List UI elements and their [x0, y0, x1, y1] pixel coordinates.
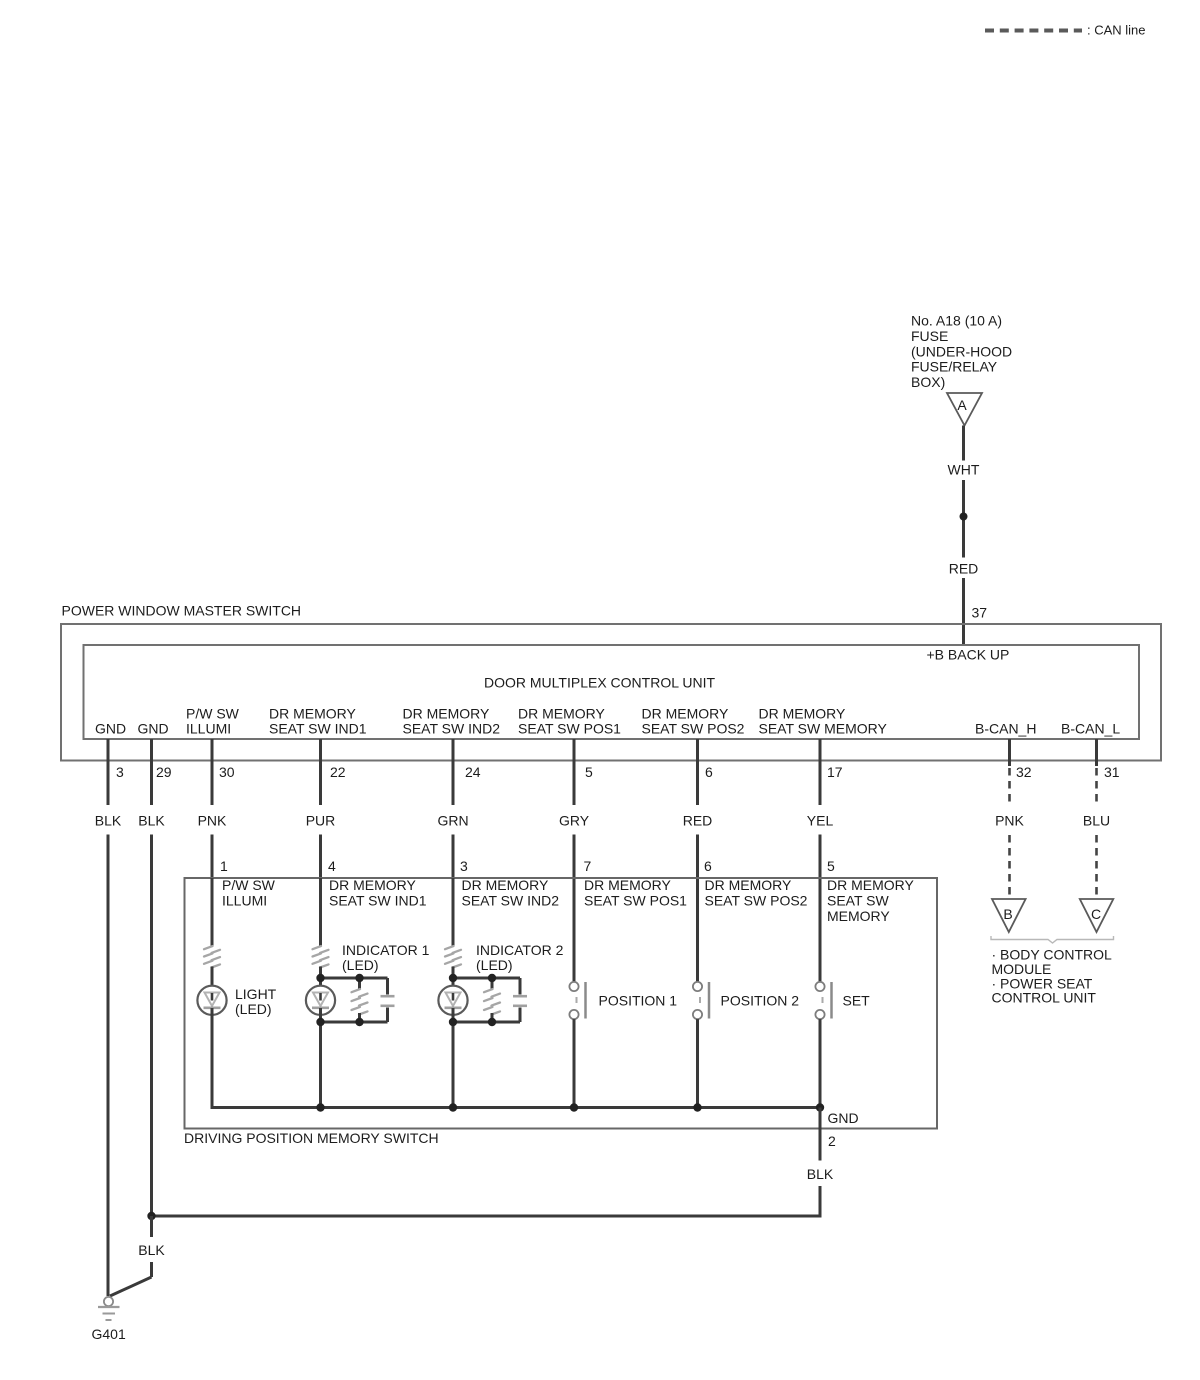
svg-text:B-CAN_L: B-CAN_L [1061, 721, 1120, 737]
indicator 1 capacitor [381, 978, 395, 1022]
svg-text:SET: SET [843, 993, 871, 1009]
svg-text:SEAT SW IND1: SEAT SW IND1 [329, 893, 427, 909]
svg-text:INDICATOR 1: INDICATOR 1 [342, 942, 430, 958]
svg-text:(LED): (LED) [342, 957, 379, 973]
svg-text:G401: G401 [92, 1326, 126, 1342]
DPMS pin label DR MEMORY SEAT SW POS1 [584, 877, 687, 909]
indicator 2 branch resistor [484, 978, 500, 1022]
svg-text:(LED): (LED) [235, 1001, 272, 1017]
svg-text:YEL: YEL [807, 813, 834, 829]
pin label DR MEMORY SEAT SW IND2 [403, 706, 501, 737]
svg-text:DR MEMORY: DR MEMORY [827, 877, 915, 893]
indicator 2 capacitor [513, 978, 527, 1022]
svg-text:PNK: PNK [995, 813, 1024, 829]
connector A [947, 393, 982, 426]
svg-text:SEAT SW IND1: SEAT SW IND1 [269, 721, 367, 737]
ground G401 [92, 1297, 126, 1342]
pin label DR MEMORY SEAT SW POS2 [642, 706, 745, 737]
svg-text:4: 4 [328, 858, 336, 874]
svg-text:PNK: PNK [198, 813, 227, 829]
LED LIGHT [197, 986, 226, 1015]
indicator 1 parallel rails [321, 978, 388, 1022]
svg-text:RED: RED [683, 813, 713, 829]
svg-text:FUSE/RELAY: FUSE/RELAY [911, 359, 998, 375]
box DRIVING POSITION MEMORY SWITCH [184, 878, 937, 1146]
svg-text:BOX): BOX) [911, 374, 945, 390]
wire PNK CAN pin32 [995, 739, 1024, 899]
indicator 2 parallel rails [453, 978, 520, 1022]
svg-text:INDICATOR 2: INDICATOR 2 [476, 942, 564, 958]
connector B [992, 899, 1026, 932]
svg-text:SEAT SW IND2: SEAT SW IND2 [462, 893, 560, 909]
ground rail junctions [316, 1103, 824, 1111]
svg-text:SEAT SW IND2: SEAT SW IND2 [403, 721, 501, 737]
svg-text:37: 37 [972, 605, 988, 621]
connector C [1080, 899, 1114, 932]
wire YEL pin17 [807, 739, 834, 982]
pin label B-CAN_L [1061, 721, 1120, 737]
legend: CAN line [985, 23, 1146, 38]
pin label P/W SW ILLUMI [186, 706, 240, 737]
svg-text:DR MEMORY: DR MEMORY [329, 877, 417, 893]
svg-text:22: 22 [330, 764, 346, 780]
resistor on IND1 wire [313, 946, 329, 967]
svg-text:WHT: WHT [948, 462, 980, 478]
svg-text:BLU: BLU [1083, 813, 1110, 829]
wire GRN inside DPMS [452, 878, 455, 946]
pin number 17 [827, 764, 843, 780]
switch POSITION 1 [569, 982, 677, 1108]
label INDICATOR 1 (LED) [342, 942, 430, 973]
wire GRY pin5 [559, 739, 590, 982]
svg-text:POSITION 2: POSITION 2 [721, 993, 800, 1009]
svg-text:2: 2 [828, 1133, 836, 1149]
svg-text:DR MEMORY: DR MEMORY [584, 877, 672, 893]
svg-text:30: 30 [219, 764, 235, 780]
DPMS pin number 3 [460, 858, 468, 874]
pin label DR MEMORY SEAT SW POS1 [518, 706, 621, 737]
pin 37 [972, 605, 988, 621]
wire BLK pin29 [138, 739, 165, 1216]
svg-text:17: 17 [827, 764, 843, 780]
svg-text:DR MEMORY: DR MEMORY [518, 706, 606, 722]
DPMS pin number 1 [220, 858, 228, 874]
svg-text:5: 5 [585, 764, 593, 780]
svg-text:DR MEMORY: DR MEMORY [403, 706, 491, 722]
wire RED pin6 [683, 739, 713, 982]
resistor on P/W SW wire [204, 946, 220, 967]
svg-text:C: C [1091, 906, 1101, 922]
svg-text:7: 7 [584, 858, 592, 874]
junction on fuse wire [960, 513, 968, 521]
pin label +B BACK UP [927, 647, 1010, 663]
svg-text:P/W SW: P/W SW [222, 877, 276, 893]
wire resistor to IND1 LED [319, 967, 322, 994]
svg-text:DR MEMORY: DR MEMORY [462, 877, 550, 893]
svg-text:(LED): (LED) [476, 957, 513, 973]
svg-text:P/W SW: P/W SW [186, 706, 240, 722]
indicator 1 junctions [316, 974, 363, 1026]
svg-text:GND: GND [138, 721, 169, 737]
svg-text:BLK: BLK [807, 1166, 834, 1182]
svg-text:RED: RED [949, 561, 979, 577]
svg-text:ILLUMI: ILLUMI [186, 721, 231, 737]
svg-text:SEAT SW POS1: SEAT SW POS1 [518, 721, 621, 737]
wire PUR inside DPMS [319, 878, 322, 946]
DPMS pin label DR MEMORY SEAT SW POS2 [705, 877, 808, 909]
pin label GND (3) [95, 721, 126, 737]
wire PNK pin30 [198, 739, 227, 946]
svg-text:3: 3 [460, 858, 468, 874]
svg-text:GRY: GRY [559, 813, 590, 829]
wire to LIGHT LED [211, 967, 214, 994]
svg-text:BLK: BLK [138, 813, 165, 829]
wire BLK to ground [110, 1216, 165, 1296]
svg-text:DR MEMORY: DR MEMORY [269, 706, 357, 722]
svg-text:+B BACK UP: +B BACK UP [927, 647, 1010, 663]
indicator 1 branch resistor [352, 978, 368, 1022]
ground rail in DPMS [211, 1008, 821, 1108]
fuse No. A18 label [911, 313, 1012, 391]
svg-text:GND: GND [828, 1110, 859, 1126]
resistor on IND2 wire [445, 946, 461, 967]
svg-text:POSITION 1: POSITION 1 [599, 993, 678, 1009]
svg-text:SEAT SW POS2: SEAT SW POS2 [705, 893, 808, 909]
svg-text:No. A18 (10 A): No. A18 (10 A) [911, 313, 1002, 329]
svg-text:3: 3 [116, 764, 124, 780]
svg-text:29: 29 [156, 764, 172, 780]
wire LIGHT LED to rail [211, 1008, 214, 1108]
svg-text:A: A [957, 397, 967, 413]
DPMS pin label DR MEMORY SEAT SW IND2 [462, 877, 560, 909]
wire RED to box [949, 480, 979, 645]
pin number 30 [219, 764, 235, 780]
svg-text:24: 24 [465, 764, 481, 780]
switch POSITION 2 [693, 982, 799, 1108]
DPMS pin label P/W SW ILLUMI [222, 877, 276, 909]
svg-text:(UNDER-HOOD: (UNDER-HOOD [911, 343, 1012, 359]
svg-text:5: 5 [827, 858, 835, 874]
svg-text:DR MEMORY: DR MEMORY [759, 706, 847, 722]
pin label DR MEMORY SEAT SW MEMORY [759, 706, 888, 737]
svg-text:1: 1 [220, 858, 228, 874]
pin label B-CAN_H [975, 721, 1036, 737]
LED indicator 2 [438, 986, 467, 1108]
pin number 22 [330, 764, 346, 780]
svg-text:DR MEMORY: DR MEMORY [642, 706, 730, 722]
LED indicator 1 [306, 986, 335, 1108]
wire BLK from DPMS GND [807, 1108, 834, 1217]
wire BLU CAN pin31 [1083, 739, 1110, 899]
svg-text:DRIVING POSITION MEMORY SWITCH: DRIVING POSITION MEMORY SWITCH [184, 1130, 439, 1146]
svg-text:: CAN line: : CAN line [1087, 23, 1146, 38]
indicator 2 junctions [449, 974, 496, 1026]
wire resistor to IND2 LED [452, 967, 455, 994]
pin number 29 [156, 764, 172, 780]
svg-text:SEAT SW POS2: SEAT SW POS2 [642, 721, 745, 737]
svg-text:CONTROL UNIT: CONTROL UNIT [992, 990, 1097, 1006]
wire BLK pin3 [95, 739, 122, 1296]
svg-text:SEAT SW: SEAT SW [827, 893, 890, 909]
inner box DOOR MULTIPLEX CONTROL UNIT [84, 645, 1140, 739]
svg-text:FUSE: FUSE [911, 328, 948, 344]
svg-text:BLK: BLK [138, 1242, 165, 1258]
svg-text:BLK: BLK [95, 813, 122, 829]
pin number 5 [585, 764, 593, 780]
svg-text:SEAT SW POS1: SEAT SW POS1 [584, 893, 687, 909]
pin number 31 [1104, 764, 1120, 780]
wire PUR pin22 [306, 739, 336, 946]
svg-text:MEMORY: MEMORY [827, 908, 890, 924]
switch SET [815, 982, 870, 1108]
note BODY CONTROL MODULE / POWER SEAT CONTROL UNIT [992, 947, 1113, 1006]
svg-text:6: 6 [705, 764, 713, 780]
DPMS pin number 2 [828, 1133, 836, 1149]
pin label GND (29) [138, 721, 169, 737]
svg-text:31: 31 [1104, 764, 1120, 780]
DPMS pin number 4 [328, 858, 336, 874]
wire GRN pin24 [437, 739, 468, 946]
pin label GND (DPMS) [828, 1110, 859, 1126]
svg-text:PUR: PUR [306, 813, 336, 829]
svg-text:6: 6 [704, 858, 712, 874]
DPMS pin number 6 [704, 858, 712, 874]
pin number 32 [1016, 764, 1032, 780]
svg-text:DOOR MULTIPLEX CONTROL UNIT: DOOR MULTIPLEX CONTROL UNIT [484, 675, 715, 691]
svg-text:32: 32 [1016, 764, 1032, 780]
svg-text:ILLUMI: ILLUMI [222, 893, 267, 909]
svg-text:DR MEMORY: DR MEMORY [705, 877, 793, 893]
svg-text:LIGHT: LIGHT [235, 986, 277, 1002]
pin number 6 [705, 764, 713, 780]
svg-text:B: B [1003, 906, 1012, 922]
bracket under connectors [991, 936, 1114, 943]
svg-text:POWER WINDOW MASTER SWITCH: POWER WINDOW MASTER SWITCH [62, 603, 302, 619]
wire WHT from connector A [948, 426, 980, 478]
DPMS pin label DR MEMORY SEAT SW MEMORY [827, 877, 915, 924]
outer box POWER WINDOW MASTER SWITCH [61, 603, 1161, 761]
svg-text:B-CAN_H: B-CAN_H [975, 721, 1036, 737]
pin number 3 [116, 764, 124, 780]
svg-text:SEAT SW MEMORY: SEAT SW MEMORY [759, 721, 888, 737]
DPMS pin label DR MEMORY SEAT SW IND1 [329, 877, 427, 909]
bottom horizontal wire [152, 1215, 822, 1218]
svg-text:GND: GND [95, 721, 126, 737]
wire PNK inside DPMS [211, 878, 214, 946]
label INDICATOR 2 (LED) [476, 942, 564, 973]
pin label DR MEMORY SEAT SW IND1 [269, 706, 367, 737]
DPMS pin number 7 [584, 858, 592, 874]
label LIGHT (LED) [235, 986, 277, 1017]
svg-text:GRN: GRN [437, 813, 468, 829]
pin number 24 [465, 764, 481, 780]
junction bottom left [147, 1212, 155, 1220]
DPMS pin number 5 [827, 858, 835, 874]
